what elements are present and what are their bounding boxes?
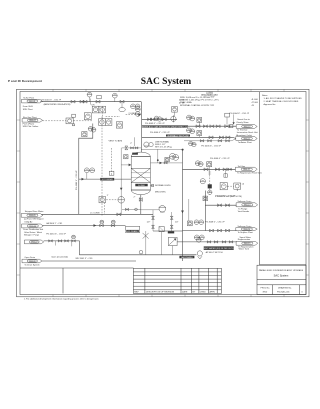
svg-text:UA 3906 1" - CS1: UA 3906 1" - CS1 — [46, 222, 63, 225]
svg-text:PROJ No.: PROJ No. — [261, 287, 271, 289]
drain pot on header — [139, 250, 143, 254]
instrument HS-3937 — [187, 221, 192, 226]
instrument AI-3916 — [187, 128, 192, 133]
vertical valve s1 — [152, 216, 155, 219]
svg-text:PID-SAC-001: PID-SAC-001 — [277, 291, 290, 294]
svg-text:To Drain System: To Drain System — [24, 263, 40, 266]
ejector box with diagonal — [168, 237, 177, 245]
off-page connector to ammonia drum — [236, 203, 258, 207]
pipe drain collection header — [80, 241, 197, 255]
vertical valve d2 — [170, 225, 173, 228]
title block box — [257, 265, 306, 294]
svg-text:Open (channeled): Open (channeled) — [51, 257, 68, 259]
valve V-116b — [225, 125, 229, 128]
FI tap — [86, 173, 88, 179]
pipe relief header — [184, 140, 232, 142]
off-page connector to regenerator — [235, 167, 257, 171]
valve V-142 — [222, 241, 226, 243]
label label small — [208, 184, 212, 188]
svg-text:3900-13: 3900-13 — [244, 205, 251, 207]
svg-text:3900-15: 3900-15 — [244, 243, 251, 245]
valve V-114 — [203, 125, 207, 128]
valve V-119b — [226, 140, 230, 142]
vertical valve d1 — [170, 216, 173, 219]
svg-text:WD 3901 3" - CS1: WD 3901 3" - CS1 — [76, 258, 94, 260]
pcv stem — [226, 117, 228, 125]
valve V-131 — [218, 204, 222, 207]
drum side stub — [150, 185, 153, 187]
AY stem2 — [198, 136, 200, 138]
arrow on riser — [181, 211, 184, 214]
valve V-139b — [72, 240, 76, 242]
small box on line — [230, 125, 233, 128]
svg-text:3900-14: 3900-14 — [243, 229, 250, 231]
instrument PY-3910 — [135, 112, 140, 117]
svg-text:AP 400.7 SET 150: AP 400.7 SET 150 — [206, 251, 224, 254]
instrument PI-3911b — [157, 117, 161, 121]
vertical valve s2 — [152, 225, 155, 228]
svg-text:3900-11: 3900-11 — [243, 138, 249, 140]
svg-text:VENT TO ATM: VENT TO ATM — [109, 139, 123, 142]
svg-text:1. For additional development: 1. For additional development informatio… — [24, 297, 99, 300]
valve V-136 — [226, 229, 230, 232]
FE tap — [121, 103, 123, 108]
svg-text:BACKWASH: BACKWASH — [181, 256, 193, 259]
instrument AY-3914 — [197, 118, 202, 123]
svg-text:Utility Air: Utility Air — [24, 220, 32, 223]
valve V-134 — [210, 229, 214, 232]
valve V-138 — [58, 240, 62, 242]
actuator box — [72, 114, 76, 117]
svg-text:SET @ 1.05 kPag: SET @ 1.05 kPag — [155, 146, 172, 148]
svg-text:INTERNAL COATING: KORITE 7122: INTERNAL COATING: KORITE 7122 — [180, 104, 215, 107]
valve V-110b — [151, 118, 155, 121]
valve V-132 — [226, 204, 230, 207]
jog up to flag2 — [232, 139, 236, 141]
svg-text:3900-09: 3900-09 — [29, 261, 36, 263]
svg-text:PG 4008 6" - CS1 #P: PG 4008 6" - CS1 #P — [205, 222, 225, 224]
pipe software drain 2 — [183, 230, 237, 232]
vessel D-3900 knockout drum — [131, 152, 150, 195]
off-page connector from Flex Gas Plant — [22, 119, 42, 123]
valve V-116 — [216, 125, 220, 128]
instrument FQ-3906c — [91, 128, 96, 133]
vent tick — [90, 99, 92, 105]
instrument HS-3904 — [84, 113, 91, 120]
svg-text:Sweet Gas to: Sweet Gas to — [237, 118, 250, 121]
svg-text:4L 60: 4L 60 — [179, 100, 185, 102]
svg-text:PG 4009 3" - CS1 #P: PG 4009 3" - CS1 #P — [76, 170, 78, 190]
instrument PI-3945 — [72, 235, 76, 239]
instrument PI-3938 — [194, 220, 199, 225]
instrument TI-3923 — [198, 162, 203, 167]
drop line to flag1 — [233, 114, 235, 123]
svg-text:4T 60: 4T 60 — [179, 102, 185, 104]
title block vline1 — [271, 285, 273, 295]
pump P-3902 — [159, 206, 166, 213]
arrow down on feed riser — [120, 188, 123, 191]
svg-text:SAC System: SAC System — [141, 77, 191, 87]
svg-text:SRU Plant: SRU Plant — [23, 108, 33, 111]
instrument PI-3942 — [197, 238, 202, 243]
instrument HV-3933 — [203, 196, 208, 201]
valve V-152 — [135, 147, 138, 149]
branch left fittings — [122, 208, 141, 210]
instrument LG-3941 — [199, 235, 204, 240]
svg-text:2": 2" — [134, 197, 136, 199]
valve V-141 — [214, 241, 218, 243]
svg-text:3900-05: 3900-05 — [29, 215, 36, 217]
pipe 12 ton line b — [114, 178, 131, 180]
svg-text:PG 4001 6" - CS1 #P: PG 4001 6" - CS1 #P — [42, 99, 62, 101]
off-page connector from Sour Water Stripper — [21, 214, 43, 218]
inner border frame — [20, 92, 306, 295]
feed arrow — [129, 164, 132, 167]
jog to flag2 — [233, 137, 236, 138]
svg-text:3900-02: 3900-02 — [29, 120, 36, 122]
pipe overhead to KO drum — [142, 118, 177, 120]
pipe utility air — [42, 225, 125, 227]
svg-text:REV: REV — [134, 292, 139, 294]
svg-text:2. HEAT TRACE ALL SULFUR LINES: 2. HEAT TRACE ALL SULFUR LINES — [264, 100, 299, 103]
svg-text:SAC System: SAC System — [274, 273, 289, 277]
instrument PI-3929 — [208, 190, 212, 194]
label vessel tag D-3900 — [135, 184, 147, 187]
off-page connector from Utility Air header — [22, 224, 44, 228]
valve V-123 — [223, 168, 227, 171]
svg-text:Open Drain: Open Drain — [24, 256, 35, 259]
off-page connector to regen water tank — [236, 241, 258, 245]
dashed drop x=209.8 — [209, 178, 211, 185]
svg-text:Stripped Sour Water: Stripped Sour Water — [25, 210, 44, 213]
pump loop verticals — [152, 210, 154, 231]
instrument FIC-3905 — [99, 119, 106, 126]
svg-text:PG 4010 6" - CS1 #P: PG 4010 6" - CS1 #P — [46, 234, 66, 236]
svg-text:1/2": 1/2" — [147, 221, 151, 223]
arrow on side line — [160, 162, 163, 165]
junction arrow — [138, 113, 141, 116]
valve V-150 — [164, 162, 167, 164]
arrow junction left — [82, 178, 85, 181]
pipe 12 ton line — [79, 178, 100, 180]
pipe riser x=205.3 — [204, 191, 206, 231]
svg-text:3900-12: 3900-12 — [243, 169, 250, 171]
valve V-112 — [209, 136, 213, 139]
pipe feed line y=147.9 — [122, 147, 142, 149]
drop to header 2 — [161, 232, 163, 255]
instrument LI-3919 — [170, 153, 176, 159]
svg-text:P and ID Development: P and ID Development — [8, 79, 42, 83]
label label backwash — [179, 256, 194, 259]
pipe under pumps — [141, 148, 182, 150]
svg-text:MIN LEVEL: MIN LEVEL — [155, 192, 167, 194]
instrument square near drum nozzle — [124, 155, 128, 159]
off-page connector to sulphur plant — [236, 228, 257, 231]
valve V-124 — [139, 198, 142, 202]
pipe feed riser down — [120, 148, 122, 214]
pipe software drain 1 — [205, 204, 236, 206]
svg-text:To Sulphur Plant: To Sulphur Plant — [238, 231, 254, 234]
revision table — [133, 268, 221, 293]
svg-text:3900-01: 3900-01 — [29, 101, 36, 103]
valve V-111 — [162, 118, 166, 121]
drop to header 3 — [172, 246, 174, 255]
instrument PDI-3913 — [172, 107, 178, 113]
svg-text:APPD: APPD — [210, 291, 216, 294]
instrument FQ-3921 — [90, 168, 95, 173]
drain funnel — [197, 251, 202, 256]
drain pot — [126, 226, 140, 232]
small box FO — [97, 95, 101, 98]
pump bottom header — [153, 230, 183, 232]
instrument PI-3928b — [111, 220, 115, 224]
svg-text:Approved for: Approved for — [264, 103, 276, 106]
instrument FI-3921 — [84, 168, 89, 173]
svg-text:Water Tank: Water Tank — [239, 248, 250, 251]
corner junction dot — [182, 149, 184, 151]
svg-text:PG 4004 6" - CS1 #P: PG 4004 6" - CS1 #P — [230, 113, 250, 115]
instrument TI-3939 — [199, 220, 204, 225]
svg-text:Clearly Show: Clearly Show — [236, 121, 249, 124]
instrument PI-3907 — [131, 104, 136, 109]
svg-text:L-3900-PM 401 (SEE NOTE): L-3900-PM 401 (SEE NOTE) — [215, 196, 242, 198]
notes column bottom line — [260, 264, 307, 266]
valve V-112b — [219, 136, 223, 139]
svg-text:From Distribution Hdr: From Distribution Hdr — [23, 228, 43, 231]
inline level instrument — [118, 197, 125, 204]
svg-text:(ANNOTATED INSULATION): (ANNOTATED INSULATION) — [44, 103, 71, 106]
instrument PI-3901 — [87, 92, 92, 97]
svg-text:To Amine Plant: To Amine Plant — [238, 141, 252, 144]
svg-text:SRU Plot Outline: SRU Plot Outline — [23, 125, 40, 128]
svg-text:3900-07: 3900-07 — [31, 242, 38, 244]
instrument LIC-3925 — [99, 196, 105, 202]
valve V-122 — [215, 168, 219, 171]
pipe drum side line y=162.9 — [151, 162, 183, 164]
pipe spent water — [177, 241, 236, 243]
svg-text:PG 4005 6" - CS1 #P: PG 4005 6" - CS1 #P — [201, 146, 221, 148]
off-page connector to recirculation — [236, 137, 257, 141]
valve V-140 — [207, 241, 211, 243]
parallel vertical x=188.8 — [188, 199, 190, 221]
valve V-104 — [96, 100, 100, 103]
valve V-139 — [65, 240, 69, 242]
svg-text:AMINE ACID GAS KNOCKOUT DRUM O: AMINE ACID GAS KNOCKOUT DRUM OVHD LINE — [142, 126, 189, 129]
svg-text:Notes: Notes — [262, 94, 267, 97]
pipe tail gas — [183, 168, 236, 170]
spectacle blind X — [143, 233, 149, 239]
drop from train y137.3 — [134, 137, 136, 146]
instrument FY-3903 — [99, 106, 106, 113]
valve V-137 — [49, 240, 53, 242]
valve V-102 — [80, 100, 84, 103]
instrument FY-3905 — [105, 119, 112, 126]
svg-text:DRAWING No.: DRAWING No. — [278, 286, 292, 289]
PDI stem — [174, 112, 176, 116]
notes column divider — [259, 92, 261, 265]
svg-text:LC CONN: LC CONN — [90, 212, 100, 214]
svg-text:PARALLELED FOUNDATION ASSY UPG: PARALLELED FOUNDATION ASSY UPGRADE — [259, 269, 304, 272]
valve V-121 — [204, 168, 208, 171]
valve V-103 — [83, 100, 87, 103]
svg-text:2": 2" — [130, 143, 132, 145]
svg-text:Absorbent Outlet: Absorbent Outlet — [236, 134, 252, 137]
control valve FV-3909 — [66, 118, 73, 124]
dashed link LIC-LT — [106, 199, 117, 201]
valve V-110 — [148, 118, 152, 121]
svg-text:4T 600: 4T 600 — [252, 102, 259, 104]
pipe riser left x=79 — [79, 124, 93, 215]
instrument PI-3918 — [189, 141, 193, 145]
pipe sour gas feed header — [40, 101, 141, 103]
instrument HS-3924 — [207, 162, 212, 167]
svg-text:PG 4004 6" - CS1 #P: PG 4004 6" - CS1 #P — [150, 132, 170, 134]
svg-text:DATE: DATE — [182, 291, 188, 294]
instrument PI-3928 — [100, 220, 104, 224]
valve V-118 — [208, 140, 212, 142]
instrument FIC-3903 — [92, 106, 99, 113]
label label 12 TON — [100, 178, 114, 181]
svg-text:LIQUID DRAIN POT: LIQUID DRAIN POT — [124, 230, 143, 233]
pipe sweet gas to flags — [184, 125, 236, 127]
off-page connector to open drain — [22, 259, 42, 263]
svg-text:Sulfur Plant: Sulfur Plant — [23, 97, 34, 100]
pump suction branch — [141, 209, 159, 211]
label label bar2 — [166, 134, 190, 137]
underline2 — [204, 95, 215, 97]
instrument TI-3908 — [135, 104, 140, 109]
instrument UY-3930 — [220, 183, 227, 190]
instrument HS-3906 — [116, 122, 122, 128]
underline C-3900 — [206, 93, 213, 95]
valve V-130 — [100, 224, 104, 226]
svg-text:PG 4003 6" - CS1 #P: PG 4003 6" - CS1 #P — [145, 123, 165, 125]
valve V-115 — [210, 125, 214, 128]
svg-text:Vent Header: Vent Header — [238, 210, 250, 213]
svg-text:NORMAL LEVEL: NORMAL LEVEL — [155, 184, 172, 187]
drain drop 2 — [225, 169, 227, 177]
svg-text:3900-10: 3900-10 — [244, 126, 251, 128]
svg-text:(a) From SW Stripper: (a) From SW Stripper — [24, 218, 44, 221]
valve V-130b — [111, 224, 115, 226]
small circle fitting — [135, 208, 138, 211]
svg-text:CHKD: CHKD — [200, 292, 206, 294]
instrument PI-3922 — [195, 161, 200, 166]
border zone ticks — [17, 89, 310, 296]
svg-text:Nitrogen / Purge: Nitrogen / Purge — [24, 233, 40, 236]
instrument AI-3917 — [190, 129, 195, 134]
svg-text:1/2": 1/2" — [175, 221, 179, 223]
vent drops nitrogen — [55, 241, 57, 246]
svg-text:SPENT WATER (XX) FILTER OUTLET: SPENT WATER (XX) FILTER OUTLET — [201, 247, 236, 250]
instrument tap line — [89, 97, 91, 102]
svg-text:D-3900: D-3900 — [138, 185, 145, 187]
outer border frame — [17, 89, 310, 296]
strainer — [159, 227, 164, 232]
instrument FI-3906b — [88, 127, 93, 132]
valve V-101 — [71, 100, 75, 103]
instrument LI-3932 — [200, 179, 205, 184]
svg-text:DESCRIPTION OF REVISION: DESCRIPTION OF REVISION — [146, 292, 175, 294]
instrument PI-3911 — [154, 116, 158, 120]
label vessel top tag — [132, 153, 138, 155]
instrument PI-3918b — [192, 142, 196, 146]
label label dark small — [168, 231, 174, 233]
instrument PIC-3910 — [135, 107, 140, 112]
svg-text:Tail Gas: Tail Gas — [238, 166, 246, 168]
svg-text:Regeneration: Regeneration — [238, 238, 251, 241]
svg-text:1": 1" — [107, 195, 109, 197]
inline instrument TI-3912 — [171, 115, 176, 122]
pump P-3901A — [144, 142, 149, 147]
valve V-119 — [218, 140, 222, 142]
instrument UJ-3931 bold — [234, 183, 241, 191]
HS stem — [208, 167, 210, 170]
pipe train y137 — [142, 136, 233, 138]
level bridle — [103, 202, 105, 214]
valve V-127 — [117, 213, 121, 216]
instrument box LY — [109, 171, 114, 175]
bottom strip top line — [20, 267, 133, 269]
svg-text:To Regenerator Feed Tank: To Regenerator Feed Tank — [237, 171, 263, 174]
branch into drum — [121, 164, 131, 166]
bottom left divider — [62, 268, 64, 293]
svg-text:NORMALLY NO FLOW: NORMALLY NO FLOW — [168, 134, 189, 137]
title block divider2 — [257, 284, 306, 286]
label label spent water — [201, 246, 236, 250]
valve V-143 — [229, 241, 233, 243]
off-page connector to incinerator — [236, 125, 257, 129]
pipe flex gas dashed — [43, 120, 66, 122]
svg-text:12 TON/DAY: 12 TON/DAY — [101, 178, 113, 181]
title block vline2 — [298, 285, 300, 295]
valve V-135 — [218, 229, 222, 232]
svg-text:1. ALL ROOT VALVES TO BE SUPPL: 1. ALL ROOT VALVES TO BE SUPPLIED — [264, 97, 303, 100]
valve V-105 — [120, 100, 124, 103]
orifice flow element FE-3903 — [119, 108, 125, 112]
off-page connector from nitrogen header — [24, 240, 43, 244]
valve V-112c — [226, 136, 230, 139]
instrument LG-3920 — [173, 155, 179, 161]
actuator stem — [73, 116, 75, 118]
valve V-151 — [131, 147, 134, 149]
instrument HS-3906d — [82, 132, 87, 137]
title block divider — [257, 279, 306, 281]
pipe drum bottom outlet — [140, 195, 142, 215]
drop from top header — [157, 149, 159, 163]
label equipment title bar — [142, 125, 189, 128]
drain drop 1 — [209, 169, 211, 176]
svg-text:PG 4006 6" - CS1 #P: PG 4006 6" - CS1 #P — [210, 158, 230, 160]
vertical valve on feed — [125, 146, 128, 150]
air arrow — [94, 224, 97, 227]
valve V-125 — [125, 208, 128, 210]
pipe center riser x=142 — [140, 102, 142, 153]
valve V-113 — [196, 125, 200, 128]
svg-text:3900-06: 3900-06 — [29, 226, 36, 228]
svg-text:4L 600: 4L 600 — [252, 99, 259, 101]
instrument TI-3902 — [112, 93, 117, 98]
actuator box M — [225, 113, 230, 117]
label label liquid drain — [124, 230, 143, 233]
pipe nitrogen — [44, 240, 80, 242]
instrument AI-3914 — [187, 115, 192, 120]
instrument LI-3940 — [194, 235, 199, 240]
off-page connector from Sulfur Plant — [22, 99, 43, 103]
valve V-123b — [228, 168, 231, 170]
AY stem — [198, 122, 200, 126]
instrument AY-3916 — [197, 131, 202, 136]
